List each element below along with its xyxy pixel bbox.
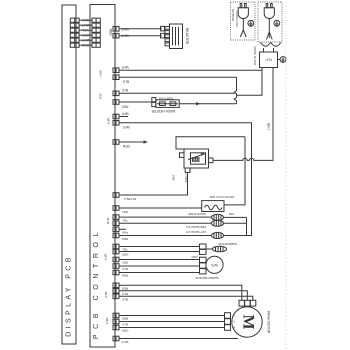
wire WHT [79, 38, 92, 42]
svg-text:WHT: WHT [105, 318, 109, 325]
svg-text:BLK: BLK [99, 94, 103, 100]
svg-text:PCB CONTROL: PCB CONTROL [93, 227, 100, 339]
svg-text:DOOR LOCK S/W: DOOR LOCK S/W [210, 195, 235, 199]
node WHT label power relay [99, 70, 103, 77]
svg-text:NTR: NTR [106, 218, 110, 225]
svg-text:RED: RED [121, 317, 128, 321]
wash heater HTR1 with thermal fuses [151, 97, 179, 113]
wire GRY [79, 33, 92, 37]
svg-text:BLU: BLU [122, 292, 128, 296]
svg-text:RED: RED [81, 43, 89, 47]
svg-text:ORG: ORG [121, 253, 129, 257]
connector motor left [225, 313, 237, 331]
wire BLU [79, 18, 92, 22]
connector pin divider details [115, 27, 117, 341]
svg-text:WHT: WHT [121, 340, 128, 344]
wire noise filter line A [237, 68, 263, 96]
svg-text:M: M [240, 314, 257, 329]
wire BLK motor [119, 296, 253, 300]
wash motor tacho wires [113, 313, 225, 332]
svg-text:YEL: YEL [122, 247, 128, 251]
wash motor M1 [232, 307, 271, 337]
wire WHT reactor top [119, 28, 162, 30]
door lock switch [202, 195, 235, 211]
svg-text:S: S [232, 315, 236, 317]
ground symbol PE3 [278, 57, 286, 63]
connector pin GRN earth [113, 140, 130, 148]
svg-text:BLK: BLK [121, 88, 128, 92]
svg-text:WHT: WHT [99, 70, 103, 77]
node BLK label heater relay [99, 94, 103, 100]
wire GRY to door lock switch [113, 206, 202, 214]
wire WHT to noise filter [119, 69, 262, 71]
node WHT label pump feed [107, 118, 111, 125]
wire BLK [119, 92, 235, 94]
svg-text:WATER SENSOR: WATER SENSOR [195, 276, 218, 280]
svg-text:ORG: ORG [191, 255, 197, 259]
svg-text:BLU: BLU [122, 267, 128, 271]
svg-text:GRY: GRY [122, 210, 128, 214]
ground symbol PE2 [274, 20, 280, 26]
connector pin reactor 2 [113, 33, 129, 38]
svg-text:RED: RED [122, 237, 128, 241]
control pcb board bar [90, 5, 115, 348]
svg-text:PNK: PNK [122, 274, 128, 278]
wire YEL [79, 28, 92, 32]
svg-text:WHT: WHT [121, 65, 128, 69]
wire valve bus [246, 217, 248, 235]
svg-text:WHT: WHT [104, 292, 108, 299]
drain pump [113, 212, 247, 223]
wire door lock to neutral bus [224, 137, 245, 205]
wash motor power connector wires [113, 283, 128, 301]
svg-text:NOISE FILTER: NOISE FILTER [253, 46, 257, 65]
connector pin WHT neutral [113, 121, 130, 130]
svg-text:YEL: YEL [122, 218, 128, 222]
connector pin heater RED [113, 100, 128, 109]
svg-text:TEMP FUSE: TEMP FUSE [158, 97, 173, 101]
connector pin WHT [113, 112, 129, 119]
wire RED [79, 43, 92, 47]
svg-text:WHT: WHT [121, 112, 128, 116]
svg-text:N,F: N,F [265, 57, 272, 62]
wire GRN with earth arrow [119, 140, 148, 143]
connector pin power WHT [113, 65, 129, 73]
svg-text:GRY: GRY [81, 33, 89, 37]
connector pin reactor 1 [113, 27, 129, 32]
svg-text:GRY: GRY [122, 261, 128, 265]
wire BLU noise filter to door switch with hops [213, 68, 273, 161]
svg-text:S/W: S/W [172, 175, 176, 181]
water sensor S1 [113, 255, 223, 280]
svg-text:BLK: BLK [122, 297, 128, 301]
svg-text:BLU: BLU [122, 80, 129, 84]
power plug P2 [264, 4, 274, 40]
node RED label reactor feed [109, 29, 113, 36]
svg-text:RED: RED [121, 286, 128, 290]
node MTR label [106, 218, 110, 225]
svg-text:PRE WASH V/V: PRE WASH V/V [186, 225, 206, 229]
option power cord box 2 [258, 2, 282, 42]
wire RED to heater [119, 101, 152, 103]
wire RED motor [119, 285, 242, 300]
wire WHT neutral bus [119, 122, 252, 124]
pre wash valve [113, 220, 247, 229]
wire WHT motor ground [113, 336, 238, 344]
option power cord box 1 [231, 2, 256, 40]
connector CN1 display-to-control, 6 pins [70, 18, 100, 47]
svg-text:WHT: WHT [122, 125, 129, 129]
svg-text:POWER CORD: POWER CORD [235, 11, 238, 28]
svg-text:PNK: PNK [122, 231, 128, 235]
wire BLU motor [119, 291, 247, 301]
svg-text:RED: RED [109, 29, 113, 36]
svg-text:THERMISTOR: THERMISTOR [218, 242, 237, 246]
svg-text:OPTION: OPTION [231, 9, 235, 21]
thermistor TH1 [113, 242, 238, 257]
wire heater out with arrow [179, 102, 236, 105]
svg-text:REACTOR: REACTOR [185, 28, 189, 45]
wire neutral bus down to hot valve [224, 123, 252, 236]
svg-text:BLU: BLU [82, 18, 89, 22]
connector pin divider details top [75, 18, 96, 47]
wire SKY/BLU to door lock motor [113, 172, 188, 201]
svg-text:DISPLAY PCB: DISPLAY PCB [66, 254, 73, 337]
svg-text:WHT: WHT [104, 254, 108, 261]
svg-text:ORG: ORG [121, 329, 129, 333]
svg-text:BLU: BLU [266, 123, 270, 130]
svg-text:V: V [232, 321, 236, 323]
svg-text:15R: 15R [229, 212, 234, 216]
svg-text:GRN: GRN [122, 144, 130, 148]
svg-text:WHT: WHT [82, 38, 90, 42]
noise filter N.F [253, 46, 277, 67]
svg-text:WASH HEATER: WASH HEATER [151, 109, 175, 113]
wire stub [119, 116, 128, 118]
svg-text:DRAIN PUMP: DRAIN PUMP [188, 212, 206, 216]
ground symbol PE1 [248, 20, 254, 26]
svg-text:RED: RED [121, 105, 128, 109]
wire cord loops to noise filter [261, 43, 281, 53]
wire WHT [79, 23, 92, 27]
node WHT label motor2 [105, 318, 109, 325]
connector pin spare [113, 227, 128, 235]
svg-text:YEL: YEL [82, 28, 89, 32]
svg-text:HOT WASH V/V: HOT WASH V/V [186, 230, 206, 234]
svg-text:WASH MOTOR: WASH MOTOR [267, 311, 271, 334]
hot wash valve [113, 230, 224, 241]
node WHT label thermistor [104, 254, 108, 261]
svg-text:WHT: WHT [82, 23, 90, 27]
door lock motor assembly [172, 137, 246, 183]
connector pin heater BLK [113, 88, 128, 96]
connector pin power BLU [113, 75, 129, 84]
svg-text:SKY/BLU: SKY/BLU [124, 197, 137, 201]
junction vertical BLU-to-heater with crossover jogs [234, 77, 236, 104]
svg-text:WHT: WHT [107, 118, 111, 125]
node WHT label motor [104, 292, 108, 299]
wire BLU to junction [119, 76, 237, 78]
svg-text:BLU: BLU [122, 323, 128, 327]
power plug P1 [238, 4, 248, 38]
wire WHT reactor bottom [119, 35, 162, 37]
reactor L1 [161, 24, 189, 49]
svg-text:W/S: W/S [211, 263, 218, 267]
svg-text:B: B [232, 327, 236, 329]
connector motor top [239, 300, 256, 306]
display pcb board bar [62, 5, 76, 344]
scanner artifact dotted line [285, 2, 287, 349]
